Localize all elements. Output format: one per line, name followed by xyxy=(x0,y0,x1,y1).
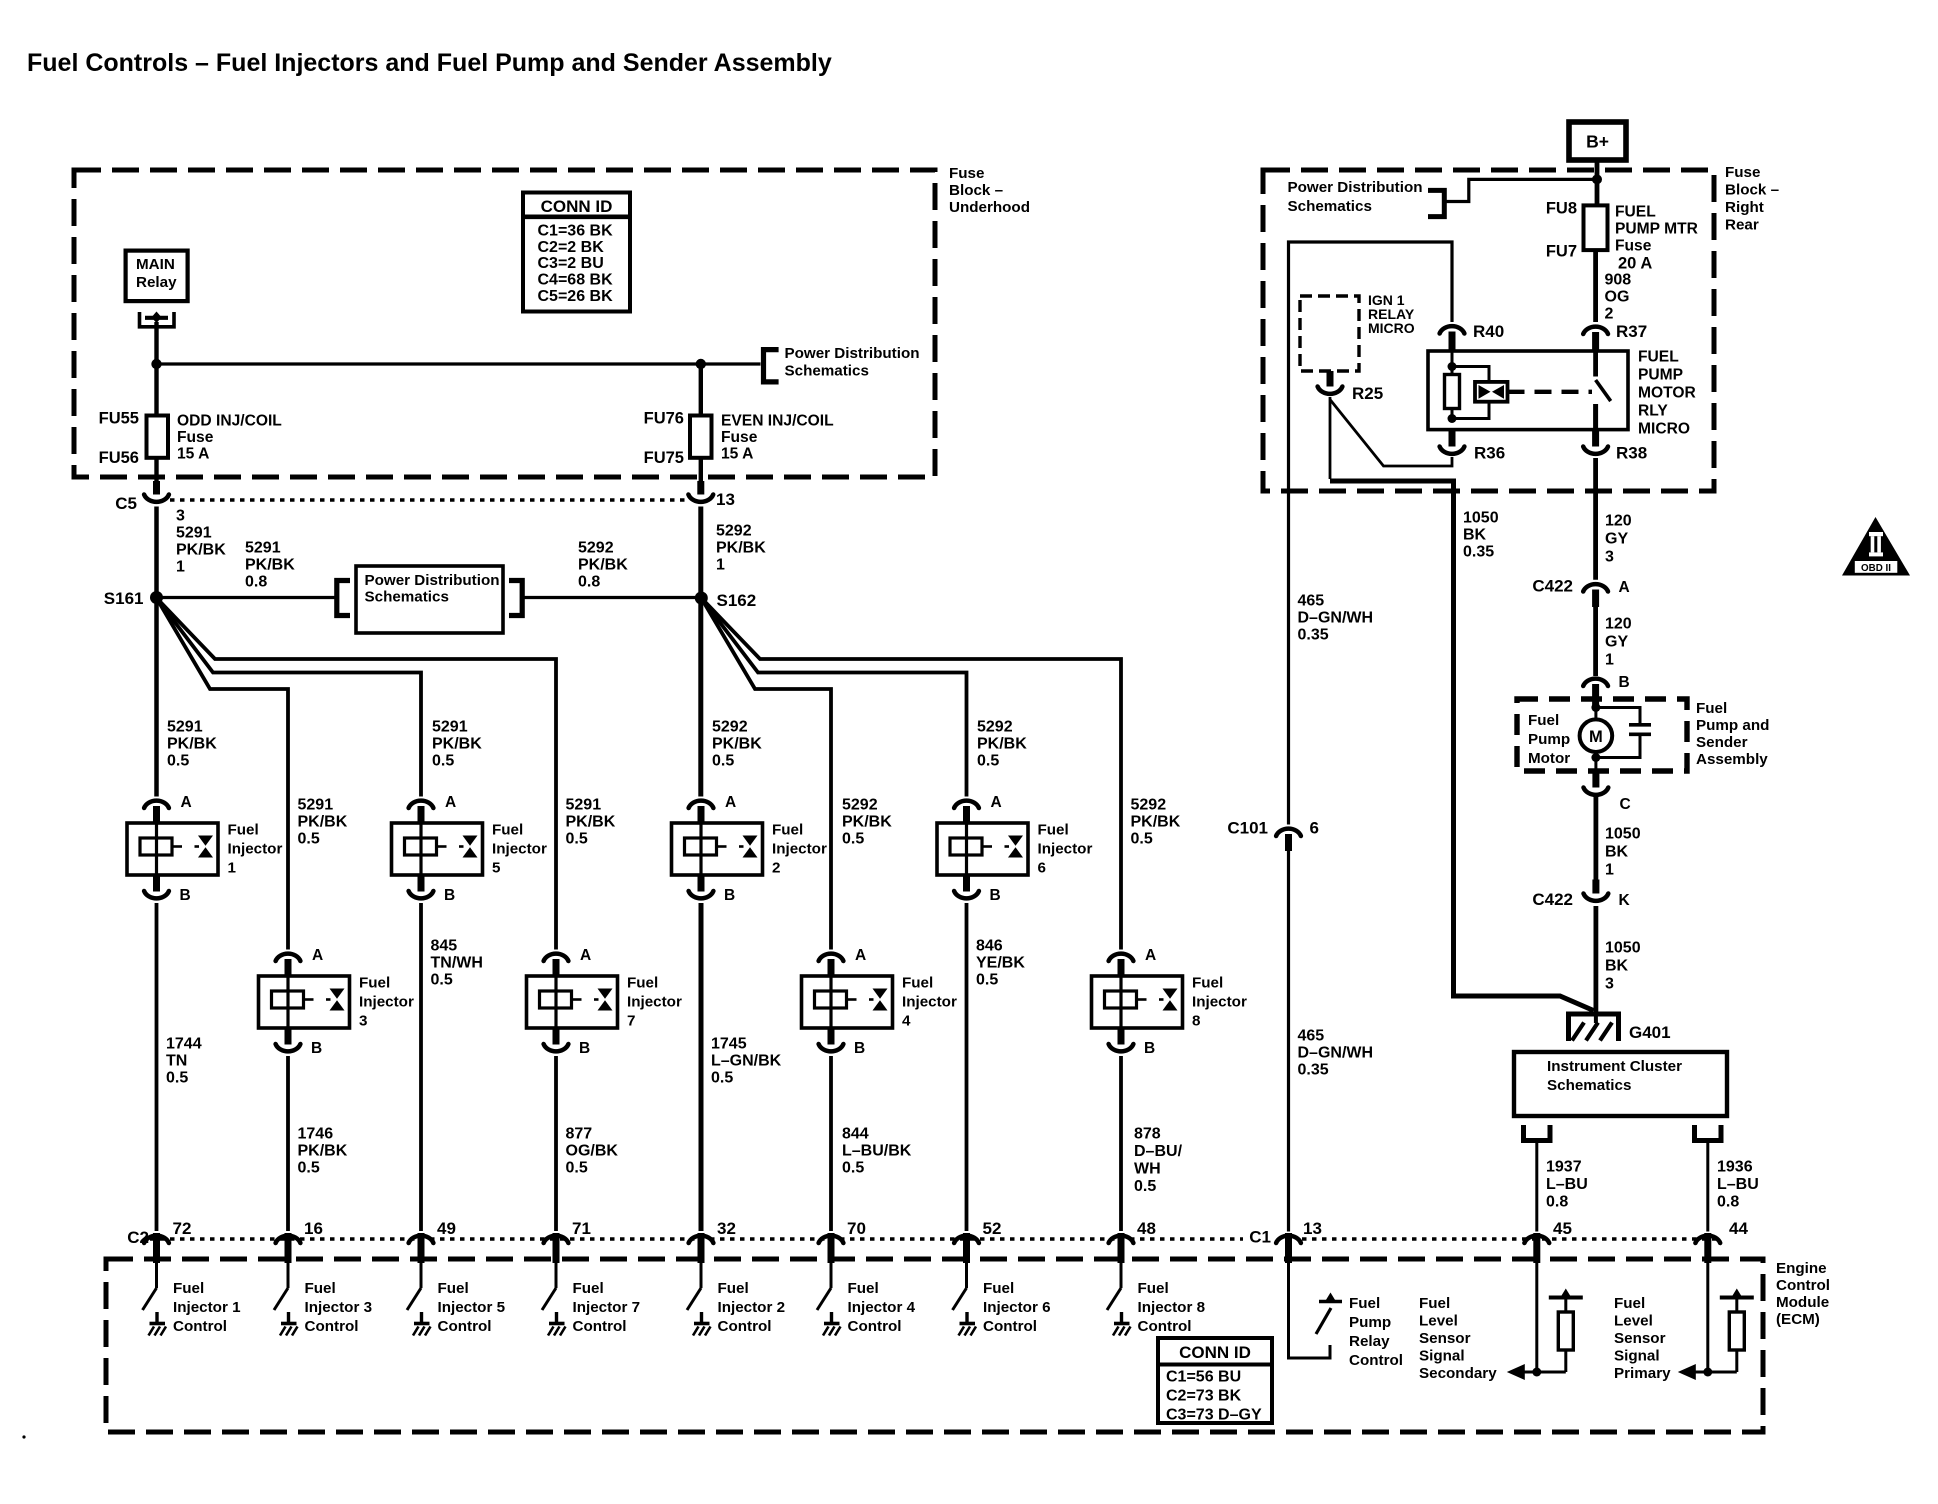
svg-text:Fuel: Fuel xyxy=(1696,700,1727,717)
svg-text:K: K xyxy=(1619,892,1631,909)
svg-text:D–GN/WH: D–GN/WH xyxy=(1298,1045,1374,1062)
svg-text:Injector 5: Injector 5 xyxy=(438,1299,506,1316)
svg-text:1050: 1050 xyxy=(1605,940,1641,957)
wire: injector 1 B to ECM pin 72 xyxy=(155,903,159,1231)
wire 1050 BK 0.35 to G401 xyxy=(1330,481,1594,1011)
fuel injector 4 control driver (switch to ground) xyxy=(817,1263,841,1336)
svg-text:71: 71 xyxy=(572,1219,591,1238)
wire: C5 to fuel injector 1 pin A xyxy=(154,507,159,797)
off-page bracket left xyxy=(337,581,350,616)
svg-text:C2=2 BK: C2=2 BK xyxy=(538,239,605,256)
svg-text:16: 16 xyxy=(304,1219,323,1238)
svg-text:5292: 5292 xyxy=(578,540,614,557)
fuel level sensor input (pull-up and signal arrow) xyxy=(1507,1263,1583,1380)
fuel pump motor M xyxy=(1580,703,1613,762)
svg-text:RLY: RLY xyxy=(1638,402,1668,419)
wire 120 GY 3: R38 to C422 A xyxy=(1593,458,1598,580)
svg-text:45: 45 xyxy=(1553,1219,1572,1238)
svg-text:TN/WH: TN/WH xyxy=(431,955,483,972)
wire: 13 to fuel injector 2 pin A xyxy=(698,507,703,797)
fuel injector 8 control driver (switch to ground) xyxy=(1107,1263,1131,1336)
svg-text:PK/BK: PK/BK xyxy=(578,557,628,574)
svg-text:1745: 1745 xyxy=(711,1036,747,1053)
svg-text:CONN ID: CONN ID xyxy=(1179,1343,1251,1362)
svg-text:0.8: 0.8 xyxy=(245,574,267,591)
svg-text:B: B xyxy=(180,887,191,904)
off-page bracket right xyxy=(509,581,522,616)
power feed B+ xyxy=(1569,122,1626,160)
wire: S161 fan to injector 7 xyxy=(157,598,557,950)
svg-text:B: B xyxy=(724,887,735,904)
svg-text:Fuel: Fuel xyxy=(1192,975,1223,992)
svg-text:72: 72 xyxy=(173,1219,192,1238)
svg-text:Injector: Injector xyxy=(359,994,414,1011)
svg-text:Control: Control xyxy=(173,1318,227,1335)
connector C422 pin B xyxy=(1583,679,1608,708)
svg-text:Fuel: Fuel xyxy=(1038,822,1069,839)
fuel level sensor input (pull-up and signal arrow) xyxy=(1678,1263,1754,1380)
wire: injector 3 B to ECM pin 16 xyxy=(286,1056,290,1231)
svg-text:PK/BK: PK/BK xyxy=(245,557,295,574)
svg-text:6: 6 xyxy=(1310,819,1319,838)
MAIN relay plug-in symbol xyxy=(140,312,175,327)
svg-text:5292: 5292 xyxy=(712,719,748,736)
fuse block underhood (dashed enclosure) xyxy=(74,170,935,477)
svg-text:5291: 5291 xyxy=(298,797,334,814)
svg-text:C2=73 BK: C2=73 BK xyxy=(1166,1388,1242,1405)
wire: injector 5 B to ECM pin 49 xyxy=(419,903,423,1231)
svg-text:PK/BK: PK/BK xyxy=(842,814,892,831)
svg-text:PUMP: PUMP xyxy=(1638,366,1683,383)
wire: R25 to ground feed xyxy=(1329,397,1332,479)
svg-text:Injector 7: Injector 7 xyxy=(573,1299,641,1316)
svg-text:Power Distribution: Power Distribution xyxy=(365,572,500,589)
svg-text:FU56: FU56 xyxy=(99,449,139,467)
fuel injector 5 xyxy=(392,823,483,875)
svg-text:Relay: Relay xyxy=(136,274,177,291)
svg-text:CONN ID: CONN ID xyxy=(541,197,613,216)
svg-text:C5=26 BK: C5=26 BK xyxy=(538,288,614,305)
wire 1050 BK 3 to ground xyxy=(1594,906,1599,1013)
off-page bracket: Power Distribution Schematics xyxy=(764,350,779,382)
svg-text:PK/BK: PK/BK xyxy=(432,736,482,753)
svg-text:BK: BK xyxy=(1463,527,1487,544)
svg-text:3: 3 xyxy=(1605,549,1614,566)
svg-text:6: 6 xyxy=(1038,860,1046,877)
svg-text:OBD II: OBD II xyxy=(1861,563,1891,574)
ECM dashed enclosure xyxy=(106,1259,1763,1432)
svg-text:Level: Level xyxy=(1614,1313,1653,1330)
connector C5 pin 3 xyxy=(144,481,169,502)
svg-text:1: 1 xyxy=(1605,862,1614,879)
svg-text:Injector 8: Injector 8 xyxy=(1138,1299,1206,1316)
svg-text:Control: Control xyxy=(1349,1352,1403,1369)
svg-text:S161: S161 xyxy=(104,589,144,608)
svg-text:877: 877 xyxy=(566,1126,593,1143)
ECM connector pin 48 xyxy=(1109,1233,1134,1263)
svg-text:Injector 6: Injector 6 xyxy=(983,1299,1051,1316)
svg-text:Schematics: Schematics xyxy=(785,363,869,380)
svg-text:5: 5 xyxy=(492,860,501,877)
svg-text:Fuel: Fuel xyxy=(1614,1295,1645,1312)
box: Power Distribution Schematics xyxy=(356,566,503,633)
svg-text:G401: G401 xyxy=(1629,1023,1671,1042)
wire: S162 fan to injector 6 xyxy=(701,598,966,797)
svg-text:PUMP MTR: PUMP MTR xyxy=(1615,220,1698,237)
svg-text:Pump: Pump xyxy=(1528,731,1570,748)
svg-text:465: 465 xyxy=(1298,593,1325,610)
svg-text:1: 1 xyxy=(176,559,185,576)
svg-text:Fuel: Fuel xyxy=(718,1280,749,1297)
splice S161 xyxy=(150,591,163,604)
svg-text:Fuel: Fuel xyxy=(902,975,933,992)
svg-text:Fuel: Fuel xyxy=(228,822,259,839)
fuel injector 8 pin A xyxy=(1109,954,1134,976)
svg-text:0.5: 0.5 xyxy=(842,1160,864,1177)
svg-text:FU7: FU7 xyxy=(1546,243,1577,261)
relay: FUEL PUMP MOTOR RLY MICRO xyxy=(1428,351,1628,430)
svg-text:Fuel: Fuel xyxy=(573,1280,604,1297)
svg-text:PK/BK: PK/BK xyxy=(298,1143,348,1160)
svg-text:5291: 5291 xyxy=(167,719,203,736)
svg-text:B+: B+ xyxy=(1586,132,1609,152)
svg-text:0.5: 0.5 xyxy=(1134,1178,1156,1195)
svg-text:0.5: 0.5 xyxy=(432,753,454,770)
ground G401 xyxy=(1566,1014,1621,1041)
svg-text:PK/BK: PK/BK xyxy=(566,814,616,831)
connector R38 xyxy=(1583,430,1608,454)
svg-text:Fuel: Fuel xyxy=(438,1280,469,1297)
svg-text:5291: 5291 xyxy=(432,719,468,736)
svg-text:Schematics: Schematics xyxy=(365,589,449,606)
connector R36 xyxy=(1440,430,1465,454)
svg-text:C5: C5 xyxy=(115,494,137,513)
fuel injector 7 control driver (switch to ground) xyxy=(542,1263,566,1336)
wire: S162 fan to injector 4 xyxy=(701,598,831,950)
svg-text:Block –: Block – xyxy=(1725,182,1779,199)
svg-text:PK/BK: PK/BK xyxy=(298,814,348,831)
wire: R36 to R25 xyxy=(1330,400,1452,467)
fuel injector 6 pin A xyxy=(954,801,979,823)
svg-text:13: 13 xyxy=(716,490,735,509)
svg-text:A: A xyxy=(725,794,736,811)
svg-text:52: 52 xyxy=(983,1219,1002,1238)
svg-text:Fuel: Fuel xyxy=(1419,1295,1450,1312)
svg-text:Schematics: Schematics xyxy=(1547,1077,1631,1094)
fuel injector 3 pin A xyxy=(276,954,301,976)
connector R37 xyxy=(1583,327,1608,352)
svg-text:FU55: FU55 xyxy=(99,410,139,428)
svg-text:Fuel: Fuel xyxy=(848,1280,879,1297)
svg-text:Assembly: Assembly xyxy=(1696,751,1768,768)
svg-text:70: 70 xyxy=(847,1219,866,1238)
svg-text:0.5: 0.5 xyxy=(976,972,998,989)
svg-text:Control: Control xyxy=(848,1318,902,1335)
svg-text:0.5: 0.5 xyxy=(1131,831,1153,848)
svg-text:Sensor: Sensor xyxy=(1419,1330,1471,1347)
svg-text:OG/BK: OG/BK xyxy=(566,1143,619,1160)
fuel injector 5 pin B xyxy=(409,875,434,898)
fuel injector 3 pin B xyxy=(276,1028,301,1051)
svg-text:A: A xyxy=(580,947,591,964)
svg-text:GY: GY xyxy=(1605,531,1628,548)
svg-text:0.35: 0.35 xyxy=(1463,544,1494,561)
svg-text:0.35: 0.35 xyxy=(1298,627,1329,644)
svg-text:R25: R25 xyxy=(1352,384,1383,403)
svg-text:C: C xyxy=(1620,796,1631,813)
svg-text:Injector 1: Injector 1 xyxy=(173,1299,241,1316)
svg-text:C1: C1 xyxy=(1249,1228,1271,1247)
svg-text:0.5: 0.5 xyxy=(431,972,453,989)
connector C422 pin A xyxy=(1583,584,1608,607)
svg-text:Injector 3: Injector 3 xyxy=(305,1299,373,1316)
svg-text:3: 3 xyxy=(1605,976,1614,993)
svg-text:A: A xyxy=(1145,947,1156,964)
ECM connector pin 13 xyxy=(1276,1233,1301,1263)
svg-text:5292: 5292 xyxy=(716,523,752,540)
fuel injector 2 pin A xyxy=(689,801,714,823)
svg-text:BK: BK xyxy=(1605,958,1629,975)
svg-text:Fuel: Fuel xyxy=(305,1280,336,1297)
svg-text:FU76: FU76 xyxy=(644,410,684,428)
svg-text:Pump and: Pump and xyxy=(1696,717,1769,734)
svg-text:120: 120 xyxy=(1605,513,1632,530)
svg-text:2: 2 xyxy=(1605,306,1614,323)
svg-text:Module: Module xyxy=(1776,1294,1829,1311)
svg-text:1: 1 xyxy=(1605,652,1614,669)
junction node even feed xyxy=(696,359,706,369)
svg-text:0.5: 0.5 xyxy=(977,753,999,770)
svg-text:Fuel: Fuel xyxy=(983,1280,1014,1297)
svg-text:0.8: 0.8 xyxy=(1717,1194,1739,1211)
wire: S162 fan to injector 8 xyxy=(701,598,1121,950)
fuel injector 5 pin A xyxy=(409,801,434,823)
svg-text:878: 878 xyxy=(1134,1126,1161,1143)
svg-text:C1=56 BU: C1=56 BU xyxy=(1166,1369,1241,1386)
svg-text:49: 49 xyxy=(437,1219,456,1238)
svg-text:C422: C422 xyxy=(1532,577,1573,596)
svg-text:Fuse: Fuse xyxy=(949,165,984,182)
svg-text:Fuel: Fuel xyxy=(627,975,658,992)
svg-text:PK/BK: PK/BK xyxy=(167,736,217,753)
svg-text:Fuel: Fuel xyxy=(1138,1280,1169,1297)
svg-text:B: B xyxy=(1619,674,1630,691)
svg-text:Control: Control xyxy=(438,1318,492,1335)
wire: FU76 feed xyxy=(699,364,703,416)
svg-text:Control: Control xyxy=(983,1318,1037,1335)
connector R40 xyxy=(1440,326,1465,351)
svg-text:5292: 5292 xyxy=(977,719,1013,736)
ECM connector pin 52 xyxy=(954,1233,979,1263)
svg-text:OG: OG xyxy=(1605,289,1630,306)
svg-text:3: 3 xyxy=(176,508,185,525)
fuel injector 3 xyxy=(259,976,350,1028)
svg-text:S162: S162 xyxy=(717,591,757,610)
fuel injector 2 control driver (switch to ground) xyxy=(687,1263,711,1336)
svg-text:Fuel: Fuel xyxy=(173,1280,204,1297)
svg-text:844: 844 xyxy=(842,1126,869,1143)
wire: pin 13 to fuel pump relay driver xyxy=(1289,1263,1331,1358)
connector R25 xyxy=(1318,371,1343,394)
relay K: MAIN Relay box xyxy=(126,251,188,302)
ECM connector pin 71 xyxy=(544,1233,569,1263)
svg-text:1050: 1050 xyxy=(1463,510,1499,527)
svg-text:B: B xyxy=(579,1040,590,1057)
svg-text:C3=2 BU: C3=2 BU xyxy=(538,255,604,272)
svg-text:Signal: Signal xyxy=(1614,1348,1660,1365)
svg-text:Fuse: Fuse xyxy=(177,429,214,446)
svg-text:PK/BK: PK/BK xyxy=(716,540,766,557)
wire: FU7 to R37 xyxy=(1593,250,1598,322)
svg-text:845: 845 xyxy=(431,938,458,955)
svg-text:44: 44 xyxy=(1729,1219,1748,1238)
svg-text:Rear: Rear xyxy=(1725,217,1759,234)
svg-text:B: B xyxy=(1144,1040,1155,1057)
svg-text:B: B xyxy=(854,1040,865,1057)
svg-text:0.5: 0.5 xyxy=(566,831,588,848)
fuel injector 6 pin B xyxy=(954,875,979,898)
CONN ID box (ECM) xyxy=(1158,1338,1272,1424)
wire: MAIN relay to FU55 xyxy=(154,322,158,416)
connector C422 pin K xyxy=(1584,880,1609,901)
wire: relay R40 riser to 465 net xyxy=(1289,242,1453,825)
svg-text:A: A xyxy=(855,947,866,964)
svg-text:R36: R36 xyxy=(1474,444,1505,463)
junction at B+ feed xyxy=(1592,174,1602,184)
relay IGN 1 RELAY MICRO (dashed box) xyxy=(1300,296,1359,371)
svg-text:13: 13 xyxy=(1303,1219,1322,1238)
wire: injector 8 B to ECM pin 48 xyxy=(1119,1056,1123,1231)
svg-text:Injector: Injector xyxy=(1192,994,1247,1011)
box: Instrument Cluster Schematics xyxy=(1514,1052,1727,1116)
svg-text:Fuse: Fuse xyxy=(721,429,758,446)
svg-text:5291: 5291 xyxy=(245,540,281,557)
wire: injector 7 B to ECM pin 71 xyxy=(554,1056,558,1231)
bracket: cluster output secondary xyxy=(1524,1125,1551,1141)
svg-text:R40: R40 xyxy=(1473,322,1504,341)
svg-text:Schematics: Schematics xyxy=(1288,198,1372,215)
svg-text:C3=73 D–GY: C3=73 D–GY xyxy=(1166,1407,1262,1424)
svg-text:Fuel: Fuel xyxy=(359,975,390,992)
svg-text:5291: 5291 xyxy=(176,525,212,542)
svg-text:Injector: Injector xyxy=(902,994,957,1011)
fuse FU76/FU75 EVEN INJ/COIL xyxy=(690,416,712,458)
fuel injector 4 pin B xyxy=(819,1028,844,1051)
svg-text:Injector: Injector xyxy=(228,841,283,858)
svg-text:20 A: 20 A xyxy=(1618,255,1652,273)
svg-text:Fuel: Fuel xyxy=(1528,712,1559,729)
svg-text:C4=68 BK: C4=68 BK xyxy=(538,272,614,289)
svg-text:1937: 1937 xyxy=(1546,1159,1582,1176)
svg-text:MICRO: MICRO xyxy=(1368,320,1415,336)
fuel injector 6 control driver (switch to ground) xyxy=(953,1263,977,1336)
svg-text:L–BU/BK: L–BU/BK xyxy=(842,1143,912,1160)
svg-text:1936: 1936 xyxy=(1717,1159,1753,1176)
svg-text:Fuse: Fuse xyxy=(1725,164,1760,181)
svg-text:2: 2 xyxy=(772,860,780,877)
fuel injector 1 pin A xyxy=(144,801,169,823)
svg-text:1050: 1050 xyxy=(1605,826,1641,843)
svg-text:ODD INJ/COIL: ODD INJ/COIL xyxy=(177,412,282,429)
svg-text:B: B xyxy=(311,1040,322,1057)
fuel injector 4 pin A xyxy=(819,954,844,976)
svg-text:Pump: Pump xyxy=(1349,1314,1391,1331)
svg-text:Level: Level xyxy=(1419,1313,1458,1330)
wire: B+ down to FU8 xyxy=(1595,160,1600,206)
svg-text:Motor: Motor xyxy=(1528,750,1570,767)
stray period mark xyxy=(22,1435,25,1438)
fuel pump relay control driver (switch) xyxy=(1316,1293,1342,1335)
connector line C5-13 (dotted) xyxy=(170,498,687,502)
svg-text:0.5: 0.5 xyxy=(166,1070,188,1087)
fuel injector 8 xyxy=(1092,976,1183,1028)
connector C101 pin 6 xyxy=(1276,829,1301,851)
svg-text:1: 1 xyxy=(716,557,725,574)
svg-text:5291: 5291 xyxy=(566,797,602,814)
fuel injector 1 control driver (switch to ground) xyxy=(143,1263,167,1336)
fuel injector 6 xyxy=(937,823,1028,875)
capacitor (pump suppression) xyxy=(1596,708,1651,758)
svg-text:0.5: 0.5 xyxy=(711,1070,733,1087)
svg-text:C101: C101 xyxy=(1227,819,1268,838)
ECM connector pin 45 xyxy=(1524,1233,1549,1263)
svg-text:Sender: Sender xyxy=(1696,734,1748,751)
fuel injector 2 xyxy=(672,823,763,875)
fuse FU8/FU7 FUEL PUMP MTR 20A xyxy=(1584,205,1608,250)
wire: FU75 to connector 13 xyxy=(699,458,703,485)
svg-text:0.5: 0.5 xyxy=(298,831,320,848)
svg-text:0.8: 0.8 xyxy=(578,574,600,591)
svg-text:A: A xyxy=(991,794,1002,811)
svg-text:B: B xyxy=(444,887,455,904)
svg-text:Right: Right xyxy=(1725,199,1764,216)
svg-text:5292: 5292 xyxy=(1131,797,1167,814)
splice S162 xyxy=(695,592,708,605)
svg-text:L–BU: L–BU xyxy=(1717,1176,1759,1193)
svg-text:Control: Control xyxy=(573,1318,627,1335)
svg-text:Injector: Injector xyxy=(1038,841,1093,858)
svg-text:L–GN/BK: L–GN/BK xyxy=(711,1053,782,1070)
fuel injector 2 pin B xyxy=(689,875,714,898)
svg-text:7: 7 xyxy=(627,1013,635,1030)
bracket: cluster output primary xyxy=(1695,1125,1722,1141)
svg-text:EVEN INJ/COIL: EVEN INJ/COIL xyxy=(721,412,834,429)
svg-text:Fuel: Fuel xyxy=(772,822,803,839)
fuel injector 5 control driver (switch to ground) xyxy=(407,1263,431,1336)
fuel injector 3 control driver (switch to ground) xyxy=(274,1263,298,1336)
svg-text:32: 32 xyxy=(717,1219,736,1238)
svg-text:BK: BK xyxy=(1605,844,1629,861)
svg-text:465: 465 xyxy=(1298,1028,1325,1045)
wire: B+ feed to Power Distribution pointer xyxy=(1445,179,1594,201)
wire: box to S162 xyxy=(522,596,696,599)
svg-text:Injector: Injector xyxy=(627,994,682,1011)
fuel injector 1 pin B xyxy=(144,875,169,898)
connector line C2/C1 (dotted) xyxy=(150,1237,1243,1241)
fuel injector 4 xyxy=(802,976,893,1028)
svg-text:0.5: 0.5 xyxy=(842,831,864,848)
ECM connector pin 72 xyxy=(144,1233,169,1263)
wire: C101 to C1 pin 13 xyxy=(1287,851,1290,1232)
svg-text:Signal: Signal xyxy=(1419,1348,1465,1365)
svg-text:Power Distribution: Power Distribution xyxy=(1288,179,1423,196)
svg-text:A: A xyxy=(181,794,192,811)
svg-text:Underhood: Underhood xyxy=(949,199,1030,216)
fuse FU55/FU56 ODD INJ/COIL xyxy=(147,416,169,458)
svg-text:B: B xyxy=(990,887,1001,904)
svg-text:5292: 5292 xyxy=(842,797,878,814)
svg-text:908: 908 xyxy=(1605,272,1632,289)
